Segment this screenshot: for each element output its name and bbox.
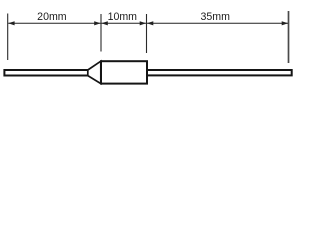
arrowhead right of 35mm bbox=[282, 21, 288, 25]
fuse taper cone bbox=[88, 61, 101, 83]
dimension line 35mm segment bbox=[147, 22, 288, 24]
fuse left lead bbox=[4, 70, 91, 76]
dimension line 20mm segment bbox=[8, 22, 100, 24]
svg-text:35mm: 35mm bbox=[200, 11, 230, 23]
svg-text:10mm: 10mm bbox=[108, 11, 138, 23]
dimension line 10mm segment bbox=[102, 22, 147, 24]
arrowhead right of 10mm bbox=[140, 21, 146, 25]
svg-text:20mm: 20mm bbox=[37, 11, 67, 23]
fuse body bbox=[101, 61, 147, 83]
arrowhead right of 20mm bbox=[94, 21, 100, 25]
arrowhead left of 35mm bbox=[147, 21, 153, 25]
extension line left (x=7.5) bbox=[7, 14, 9, 61]
extension line at body left (x=101) bbox=[100, 14, 102, 52]
extension line at body right (x=146.5) bbox=[146, 14, 148, 53]
fuse right lead bbox=[147, 70, 292, 75]
arrowhead left of 10mm bbox=[101, 21, 107, 25]
extension line right (x=288.5) bbox=[288, 11, 290, 63]
arrowhead left of 20mm bbox=[8, 21, 14, 25]
